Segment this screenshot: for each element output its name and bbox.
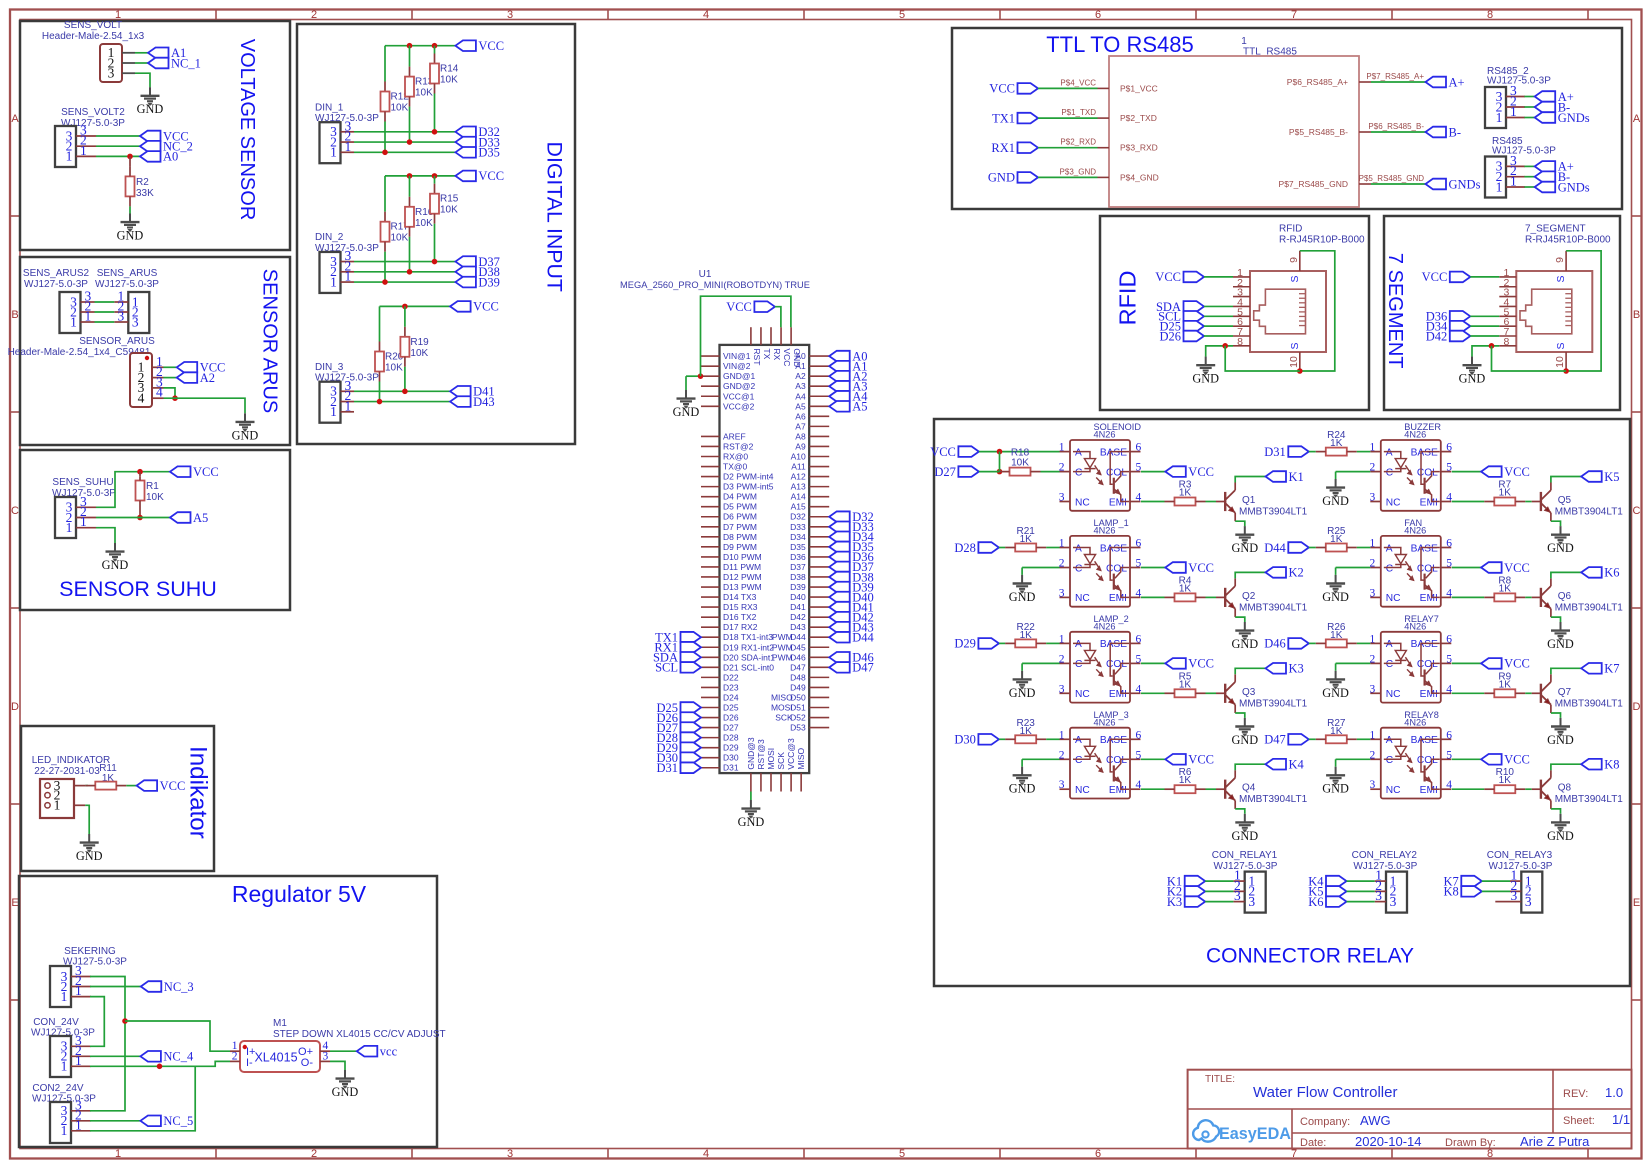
svg-text:6: 6 <box>1095 9 1101 21</box>
svg-text:1K: 1K <box>1020 726 1033 737</box>
svg-text:K6: K6 <box>1604 566 1619 580</box>
svg-text:Q6: Q6 <box>1558 591 1572 602</box>
svg-text:A9: A9 <box>795 441 806 451</box>
svg-text:1K: 1K <box>1330 726 1343 737</box>
svg-text:A: A <box>1633 113 1641 125</box>
svg-text:NC: NC <box>1386 593 1401 604</box>
svg-text:1: 1 <box>1510 174 1517 189</box>
svg-text:1K: 1K <box>1499 488 1512 499</box>
svg-text:R14: R14 <box>440 64 459 75</box>
svg-text:GND: GND <box>673 405 700 419</box>
svg-text:WJ127-5.0-3P: WJ127-5.0-3P <box>1214 861 1278 872</box>
svg-text:1: 1 <box>75 983 82 998</box>
svg-text:NC: NC <box>1075 689 1090 700</box>
svg-text:4N26: 4N26 <box>1404 622 1426 632</box>
svg-text:D33: D33 <box>790 522 806 532</box>
svg-text:P$5_RS485_B-: P$5_RS485_B- <box>1289 127 1348 137</box>
svg-text:Q5: Q5 <box>1558 495 1572 506</box>
svg-text:D44: D44 <box>852 631 874 645</box>
svg-text:3: 3 <box>1390 894 1397 909</box>
svg-text:1: 1 <box>330 145 337 160</box>
svg-text:3: 3 <box>507 9 513 21</box>
svg-text:Drawn By:: Drawn By: <box>1445 1137 1496 1149</box>
svg-text:10K: 10K <box>415 88 433 99</box>
svg-text:1: 1 <box>1059 538 1065 550</box>
svg-text:D37: D37 <box>790 562 806 572</box>
svg-text:D29: D29 <box>954 637 976 651</box>
svg-text:GND@2: GND@2 <box>723 381 756 391</box>
svg-text:MMBT3904LT1: MMBT3904LT1 <box>1239 794 1308 805</box>
svg-text:R1: R1 <box>146 481 159 492</box>
svg-text:4N26: 4N26 <box>1404 526 1426 536</box>
svg-text:1: 1 <box>115 1148 121 1160</box>
svg-text:D35: D35 <box>478 146 500 160</box>
svg-text:6: 6 <box>1136 729 1142 741</box>
svg-text:3: 3 <box>1375 888 1382 903</box>
svg-text:3: 3 <box>1059 587 1065 599</box>
svg-text:STEP DOWN XL4015 CC/CV ADJUST: STEP DOWN XL4015 CC/CV ADJUST <box>273 1029 446 1040</box>
svg-text:2: 2 <box>311 9 317 21</box>
svg-text:D39: D39 <box>790 582 806 592</box>
svg-text:TX1: TX1 <box>992 111 1015 125</box>
svg-text:SENSOR SUHU: SENSOR SUHU <box>59 577 217 601</box>
svg-text:7_SEGMENT: 7_SEGMENT <box>1525 224 1586 235</box>
svg-text:GND: GND <box>1231 829 1258 843</box>
svg-text:vcc: vcc <box>380 1045 398 1059</box>
svg-text:6: 6 <box>1136 442 1142 454</box>
svg-text:5: 5 <box>1446 462 1452 474</box>
svg-text:3: 3 <box>1059 492 1065 504</box>
svg-text:A14: A14 <box>791 492 806 502</box>
svg-text:1K: 1K <box>1499 775 1512 786</box>
svg-text:1K: 1K <box>1179 775 1192 786</box>
svg-text:PWM: PWM <box>772 642 793 652</box>
svg-text:VCC: VCC <box>1504 465 1530 479</box>
svg-text:EMI: EMI <box>1109 497 1127 508</box>
svg-text:GND: GND <box>1322 494 1349 508</box>
svg-text:SENS_VOLT: SENS_VOLT <box>64 20 122 31</box>
svg-text:5: 5 <box>1136 462 1142 474</box>
svg-text:GND: GND <box>1192 372 1219 386</box>
svg-text:GND: GND <box>1231 541 1258 555</box>
svg-text:4: 4 <box>1446 587 1452 599</box>
svg-text:D49: D49 <box>790 682 806 692</box>
svg-text:10K: 10K <box>146 492 164 503</box>
svg-text:D10 PWM: D10 PWM <box>723 552 762 562</box>
svg-text:1: 1 <box>80 514 87 529</box>
svg-text:D38: D38 <box>790 572 806 582</box>
svg-text:5: 5 <box>1136 749 1142 761</box>
svg-text:VIN@2: VIN@2 <box>723 361 751 371</box>
svg-text:3: 3 <box>118 309 125 324</box>
svg-text:R19: R19 <box>410 337 429 348</box>
svg-text:P$5_RS485_GND: P$5_RS485_GND <box>1359 174 1425 183</box>
svg-text:GND: GND <box>76 849 103 863</box>
svg-text:D46: D46 <box>1264 637 1286 651</box>
svg-text:5: 5 <box>1446 558 1452 570</box>
svg-text:1: 1 <box>80 143 87 158</box>
svg-text:RFID: RFID <box>1115 271 1141 326</box>
svg-text:BASE: BASE <box>1411 447 1438 458</box>
svg-text:C: C <box>1386 563 1393 574</box>
svg-text:MMBT3904LT1: MMBT3904LT1 <box>1239 507 1308 518</box>
svg-text:VCC: VCC <box>473 300 499 314</box>
svg-text:D27: D27 <box>934 465 956 479</box>
svg-text:NC: NC <box>1386 689 1401 700</box>
svg-text:E: E <box>11 897 18 909</box>
svg-text:D2 PWM-int4: D2 PWM-int4 <box>723 472 774 482</box>
svg-text:2: 2 <box>1059 749 1065 761</box>
svg-text:D47: D47 <box>852 661 874 675</box>
svg-text:NC_3: NC_3 <box>164 980 194 994</box>
svg-text:A2: A2 <box>795 371 806 381</box>
svg-text:D43: D43 <box>790 622 806 632</box>
svg-text:P$6_RS485_A+: P$6_RS485_A+ <box>1287 77 1348 87</box>
svg-text:4N26: 4N26 <box>1094 526 1116 536</box>
svg-text:GND: GND <box>1547 541 1574 555</box>
svg-text:2: 2 <box>1370 558 1376 570</box>
svg-text:D47: D47 <box>1264 733 1286 747</box>
svg-text:4: 4 <box>1136 779 1142 791</box>
svg-text:DIN_2: DIN_2 <box>315 232 344 243</box>
svg-text:SCK: SCK <box>775 713 793 723</box>
svg-text:CON_RELAY1: CON_RELAY1 <box>1212 850 1278 861</box>
svg-text:A12: A12 <box>791 472 806 482</box>
svg-text:7: 7 <box>1291 9 1297 21</box>
svg-text:1: 1 <box>1059 633 1065 645</box>
svg-text:WJ127-5.0-3P: WJ127-5.0-3P <box>24 279 88 290</box>
svg-text:P$3_RXD: P$3_RXD <box>1120 143 1158 153</box>
svg-text:A13: A13 <box>791 482 806 492</box>
svg-text:A7: A7 <box>795 421 806 431</box>
svg-text:PWM: PWM <box>772 632 793 642</box>
svg-text:EMI: EMI <box>1109 593 1127 604</box>
svg-text:A15: A15 <box>791 502 806 512</box>
svg-text:WJ127-5.0-3P: WJ127-5.0-3P <box>95 279 159 290</box>
svg-text:4N26: 4N26 <box>1404 430 1426 440</box>
svg-text:D20 SDA-int1: D20 SDA-int1 <box>723 652 775 662</box>
svg-text:1: 1 <box>1059 442 1065 454</box>
svg-text:D24: D24 <box>723 692 739 702</box>
svg-text:3: 3 <box>1511 888 1518 903</box>
svg-text:3: 3 <box>1059 779 1065 791</box>
svg-text:EMI: EMI <box>1420 497 1438 508</box>
svg-text:NC: NC <box>1075 497 1090 508</box>
svg-text:COL: COL <box>1106 659 1127 670</box>
svg-text:RST@2: RST@2 <box>723 441 754 451</box>
svg-text:A5: A5 <box>852 400 867 414</box>
svg-text:M1: M1 <box>273 1018 287 1029</box>
svg-text:TITLE:: TITLE: <box>1205 1074 1235 1085</box>
svg-text:3: 3 <box>1248 894 1255 909</box>
svg-text:4N26: 4N26 <box>1404 717 1426 727</box>
svg-text:5: 5 <box>1446 749 1452 761</box>
svg-text:4: 4 <box>703 1148 709 1160</box>
svg-text:8: 8 <box>1237 336 1243 348</box>
svg-text:K1: K1 <box>1289 470 1304 484</box>
svg-text:Company:: Company: <box>1300 1116 1350 1128</box>
svg-text:COL: COL <box>1417 467 1438 478</box>
svg-text:1: 1 <box>61 989 68 1004</box>
svg-text:SENSOR ARUS: SENSOR ARUS <box>259 269 281 413</box>
svg-text:1K: 1K <box>1330 534 1343 545</box>
svg-text:EMI: EMI <box>1109 689 1127 700</box>
svg-text:D30: D30 <box>954 733 976 747</box>
svg-text:1: 1 <box>75 1117 82 1132</box>
svg-text:P$1_TXD: P$1_TXD <box>1061 108 1096 117</box>
svg-text:3: 3 <box>1234 888 1241 903</box>
svg-text:CONNECTOR RELAY: CONNECTOR RELAY <box>1206 945 1414 968</box>
svg-text:6: 6 <box>1095 1148 1101 1160</box>
svg-text:VCC@2: VCC@2 <box>723 401 755 411</box>
svg-text:S: S <box>1289 342 1301 349</box>
svg-text:5: 5 <box>1446 653 1452 665</box>
svg-text:SENS_SUHU: SENS_SUHU <box>52 477 113 488</box>
svg-text:VCC: VCC <box>1504 753 1530 767</box>
svg-text:VCC: VCC <box>1188 753 1214 767</box>
svg-text:1: 1 <box>54 798 61 813</box>
svg-text:NC_5: NC_5 <box>163 1114 193 1128</box>
svg-text:D26: D26 <box>1159 329 1181 343</box>
svg-text:Q3: Q3 <box>1242 687 1256 698</box>
svg-text:4: 4 <box>1446 779 1452 791</box>
svg-text:BASE: BASE <box>1411 639 1438 650</box>
svg-text:VCC: VCC <box>1188 657 1214 671</box>
svg-text:1: 1 <box>1370 442 1376 454</box>
svg-text:P$2_TXD: P$2_TXD <box>1120 113 1157 123</box>
svg-text:3: 3 <box>1370 683 1376 695</box>
svg-text:I-: I- <box>246 1057 253 1069</box>
svg-text:1: 1 <box>1370 633 1376 645</box>
svg-text:A: A <box>1386 447 1393 458</box>
svg-text:1K: 1K <box>1179 679 1192 690</box>
svg-text:VCC: VCC <box>930 445 956 459</box>
svg-text:8: 8 <box>1503 336 1509 348</box>
svg-text:K4: K4 <box>1289 758 1305 772</box>
svg-text:P$7_RS485_A+: P$7_RS485_A+ <box>1366 72 1424 81</box>
svg-text:2: 2 <box>1059 653 1065 665</box>
svg-text:RX: RX <box>772 348 782 360</box>
svg-text:D36: D36 <box>790 552 806 562</box>
svg-text:3: 3 <box>507 1148 513 1160</box>
svg-text:GND@3: GND@3 <box>746 737 756 770</box>
svg-text:VCC: VCC <box>726 300 752 314</box>
svg-text:D30: D30 <box>723 753 739 763</box>
svg-text:XL4015: XL4015 <box>254 1051 297 1065</box>
svg-text:2: 2 <box>1059 558 1065 570</box>
svg-text:A2: A2 <box>200 371 215 385</box>
svg-text:GND@1: GND@1 <box>723 371 756 381</box>
svg-text:VCC: VCC <box>782 348 792 366</box>
svg-text:D42: D42 <box>1426 329 1448 343</box>
svg-text:R2: R2 <box>136 177 149 188</box>
svg-text:D25: D25 <box>723 703 739 713</box>
svg-text:S: S <box>1555 342 1567 349</box>
svg-text:NC_1: NC_1 <box>171 56 201 70</box>
svg-text:VOLTAGE SENSOR: VOLTAGE SENSOR <box>236 39 258 221</box>
svg-text:EMI: EMI <box>1420 785 1438 796</box>
svg-text:1: 1 <box>330 274 337 289</box>
svg-text:A: A <box>11 113 19 125</box>
svg-text:4: 4 <box>703 9 709 21</box>
svg-text:Q4: Q4 <box>1242 783 1256 794</box>
svg-text:K3: K3 <box>1167 895 1182 909</box>
svg-text:S: S <box>1289 275 1301 282</box>
svg-text:GND: GND <box>102 558 129 572</box>
svg-text:1: 1 <box>70 314 77 329</box>
svg-text:1: 1 <box>1059 729 1065 741</box>
svg-text:Indikator: Indikator <box>185 746 212 839</box>
svg-text:8: 8 <box>1487 1148 1493 1160</box>
svg-text:D40: D40 <box>790 592 806 602</box>
svg-text:D14 TX3: D14 TX3 <box>723 592 757 602</box>
svg-text:BASE: BASE <box>1100 447 1127 458</box>
svg-text:1: 1 <box>1496 179 1503 194</box>
svg-text:RX1: RX1 <box>991 141 1015 155</box>
svg-text:1: 1 <box>345 269 352 284</box>
svg-text:VCC: VCC <box>1504 561 1530 575</box>
svg-text:C: C <box>1075 563 1082 574</box>
svg-text:A5: A5 <box>795 401 806 411</box>
svg-text:VCC: VCC <box>1188 561 1214 575</box>
svg-text:K7: K7 <box>1604 662 1619 676</box>
svg-text:6: 6 <box>1446 633 1452 645</box>
svg-text:C: C <box>1075 467 1082 478</box>
svg-text:GNDs: GNDs <box>1558 180 1590 194</box>
svg-text:1: 1 <box>61 1123 68 1138</box>
svg-text:A: A <box>1075 735 1082 746</box>
svg-text:MMBT3904LT1: MMBT3904LT1 <box>1555 602 1624 613</box>
svg-text:D47: D47 <box>790 662 806 672</box>
svg-text:A: A <box>1075 543 1082 554</box>
svg-text:GND: GND <box>1231 637 1258 651</box>
svg-text:P$1_VCC: P$1_VCC <box>1120 83 1158 93</box>
svg-text:WJ127-5.0-3P: WJ127-5.0-3P <box>1487 76 1551 87</box>
svg-text:P$4_GND: P$4_GND <box>1120 172 1159 182</box>
svg-text:COL: COL <box>1106 467 1127 478</box>
svg-text:DIN_1: DIN_1 <box>315 102 344 113</box>
svg-text:GND: GND <box>1322 686 1349 700</box>
svg-text:D22: D22 <box>723 672 739 682</box>
svg-text:2: 2 <box>1370 653 1376 665</box>
svg-text:D4 PWM: D4 PWM <box>723 492 757 502</box>
svg-text:1: 1 <box>75 1053 82 1068</box>
svg-text:10K: 10K <box>410 348 428 359</box>
svg-text:4: 4 <box>1446 492 1452 504</box>
svg-text:4: 4 <box>1136 683 1142 695</box>
svg-text:Sheet:: Sheet: <box>1563 1115 1595 1127</box>
svg-text:4: 4 <box>1136 492 1142 504</box>
svg-text:1: 1 <box>345 139 352 154</box>
svg-text:WJ127-5.0-3P: WJ127-5.0-3P <box>1492 146 1556 157</box>
svg-text:1: 1 <box>1370 729 1376 741</box>
svg-text:A10: A10 <box>791 452 806 462</box>
svg-text:6: 6 <box>1136 538 1142 550</box>
svg-text:Arie Z Putra: Arie Z Putra <box>1520 1134 1590 1149</box>
svg-text:7 SEGMENT: 7 SEGMENT <box>1384 253 1406 369</box>
svg-text:GND: GND <box>1009 590 1036 604</box>
svg-text:CON_24V: CON_24V <box>33 1017 79 1028</box>
svg-text:COL: COL <box>1417 755 1438 766</box>
svg-text:Q2: Q2 <box>1242 591 1256 602</box>
svg-text:B: B <box>1633 309 1640 321</box>
svg-text:MISO: MISO <box>796 747 806 769</box>
svg-text:AREF: AREF <box>723 431 746 441</box>
svg-text:D53: D53 <box>790 723 806 733</box>
svg-text:MMBT3904LT1: MMBT3904LT1 <box>1555 794 1624 805</box>
svg-text:EMI: EMI <box>1420 689 1438 700</box>
svg-text:1: 1 <box>85 309 92 324</box>
svg-text:P$6_RS485_B-: P$6_RS485_B- <box>1368 122 1424 131</box>
svg-text:BASE: BASE <box>1411 735 1438 746</box>
svg-text:33K: 33K <box>136 188 154 199</box>
svg-text:COL: COL <box>1106 755 1127 766</box>
svg-text:10: 10 <box>1554 356 1566 368</box>
svg-text:D27: D27 <box>723 723 739 733</box>
svg-text:R-RJ45R10P-B000: R-RJ45R10P-B000 <box>1279 235 1365 246</box>
svg-text:D42: D42 <box>790 612 806 622</box>
svg-text:P$3_GND: P$3_GND <box>1060 167 1097 176</box>
svg-text:RFID: RFID <box>1279 224 1302 235</box>
svg-text:EasyEDA: EasyEDA <box>1219 1125 1291 1143</box>
svg-text:D16 TX2: D16 TX2 <box>723 612 757 622</box>
svg-text:VCC: VCC <box>1422 270 1448 284</box>
svg-text:8: 8 <box>1487 9 1493 21</box>
svg-text:D17 RX2: D17 RX2 <box>723 622 758 632</box>
svg-text:SENS_VOLT2: SENS_VOLT2 <box>61 107 125 118</box>
svg-text:3: 3 <box>1370 587 1376 599</box>
svg-text:SEKERING: SEKERING <box>64 946 116 957</box>
svg-text:DIGITAL INPUT: DIGITAL INPUT <box>543 142 567 292</box>
svg-text:P$7_RS485_GND: P$7_RS485_GND <box>1279 179 1348 189</box>
svg-text:A5: A5 <box>193 511 208 525</box>
svg-text:1: 1 <box>66 520 73 535</box>
svg-text:A: A <box>1386 639 1393 650</box>
svg-text:D26: D26 <box>723 713 739 723</box>
svg-text:D: D <box>1633 701 1641 713</box>
svg-text:GND: GND <box>1322 782 1349 796</box>
svg-text:MOSI: MOSI <box>771 703 793 713</box>
svg-text:3: 3 <box>108 66 115 81</box>
svg-text:1: 1 <box>1241 36 1247 47</box>
svg-text:EMI: EMI <box>1420 593 1438 604</box>
svg-text:REV:: REV: <box>1563 1088 1588 1100</box>
svg-text:NC: NC <box>1075 785 1090 796</box>
svg-text:Header-Male-2.54_1x3: Header-Male-2.54_1x3 <box>42 31 145 42</box>
svg-text:6: 6 <box>1136 633 1142 645</box>
svg-text:GNDs: GNDs <box>1449 177 1481 191</box>
svg-text:4N26: 4N26 <box>1094 430 1116 440</box>
svg-text:1: 1 <box>330 404 337 419</box>
svg-text:22-27-2031-03: 22-27-2031-03 <box>34 766 100 777</box>
svg-text:D28: D28 <box>954 541 976 555</box>
svg-text:NC: NC <box>1386 497 1401 508</box>
svg-text:C: C <box>1075 755 1082 766</box>
svg-text:NC: NC <box>1075 593 1090 604</box>
svg-text:1: 1 <box>66 149 73 164</box>
svg-text:A11: A11 <box>791 462 806 472</box>
svg-text:1.0: 1.0 <box>1605 1085 1623 1100</box>
svg-text:4: 4 <box>138 391 145 406</box>
svg-text:3: 3 <box>1059 683 1065 695</box>
svg-text:SCL: SCL <box>655 661 678 675</box>
svg-text:C: C <box>1075 659 1082 670</box>
svg-text:GND: GND <box>792 348 802 367</box>
svg-text:3: 3 <box>323 1051 329 1063</box>
svg-text:MOSI: MOSI <box>766 748 776 770</box>
svg-text:GND: GND <box>1009 686 1036 700</box>
svg-text:SENS_ARUS2: SENS_ARUS2 <box>23 268 90 279</box>
